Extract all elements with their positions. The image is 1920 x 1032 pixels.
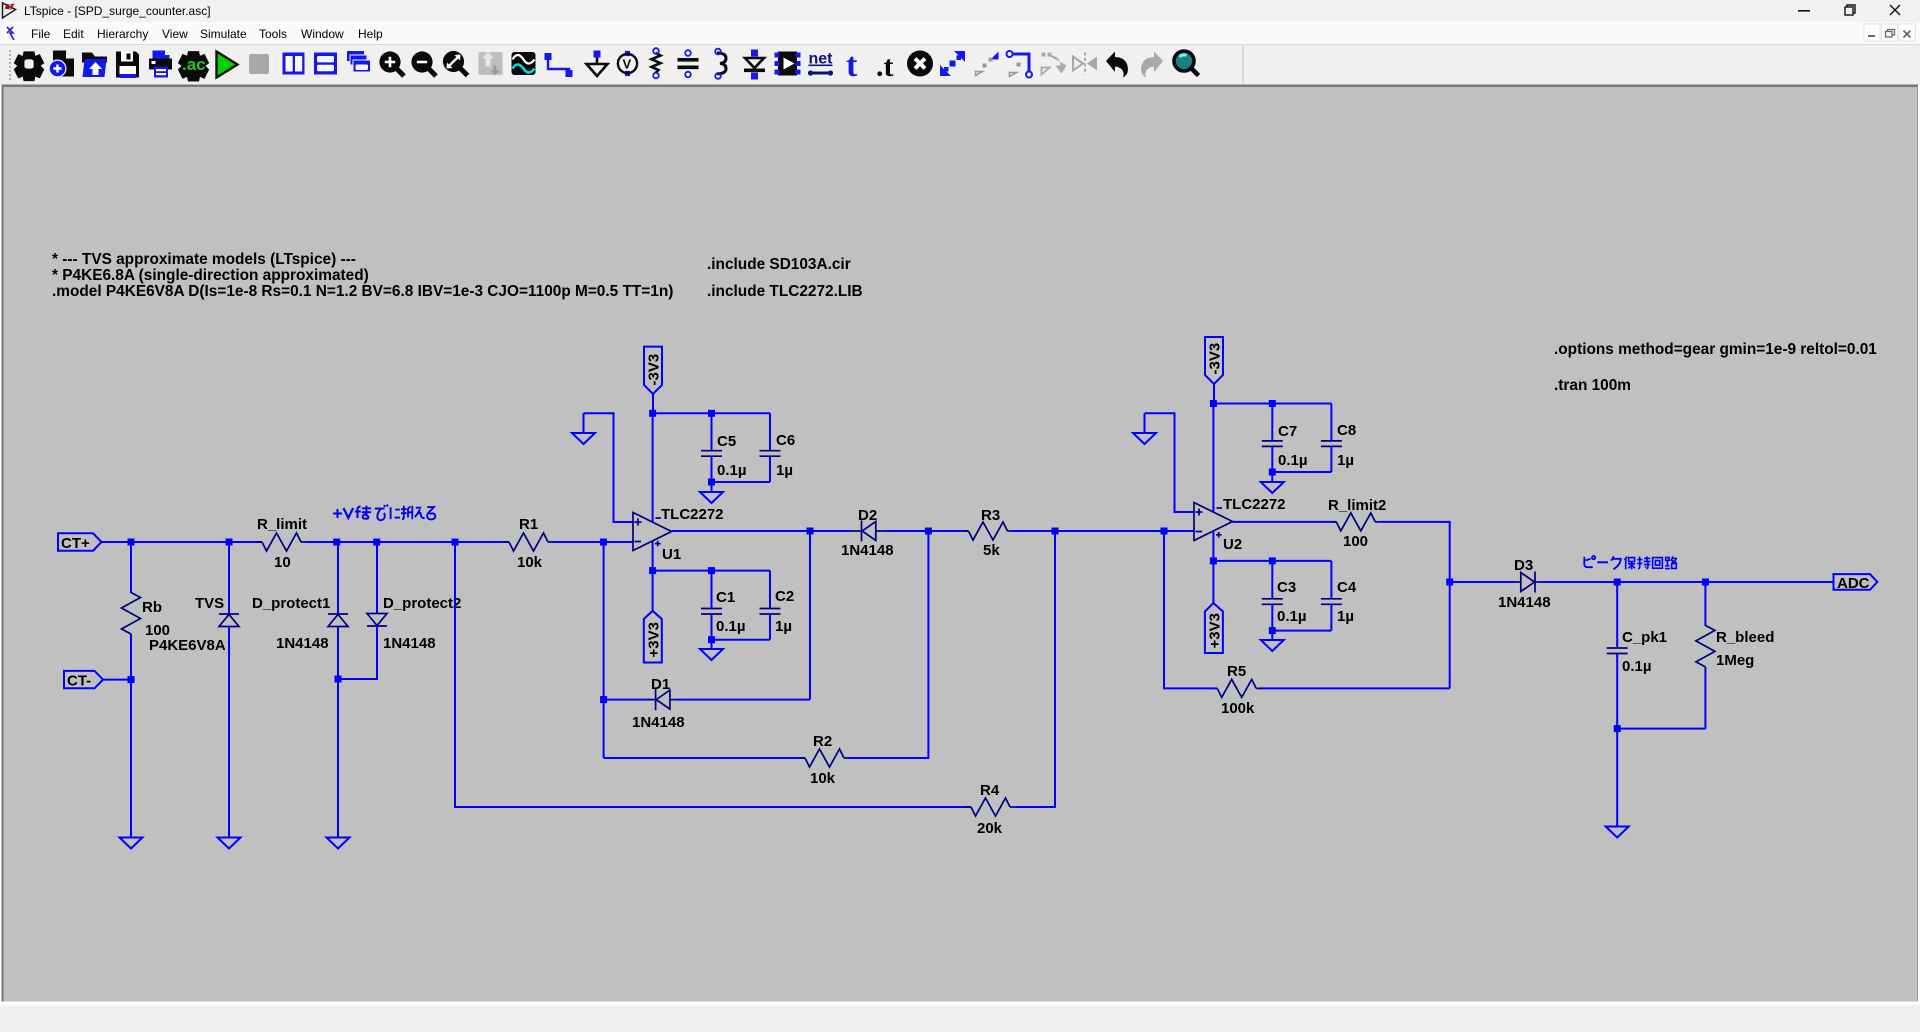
capacitor C3	[1262, 561, 1307, 631]
icon: undo	[1106, 52, 1128, 78]
wire C_pk1 R_bleed bottom	[1617, 728, 1705, 730]
icon: delete	[907, 51, 933, 77]
svg-text:5k: 5k	[983, 542, 1000, 559]
icon: capacitor mode	[678, 50, 699, 77]
svg-text:0.1µ: 0.1µ	[716, 618, 746, 635]
wire ground stub U1 left	[583, 413, 585, 433]
icon: halt	[249, 54, 269, 74]
svg-text:C4: C4	[1337, 579, 1357, 596]
node junction C5 bottom	[708, 479, 715, 486]
svg-text:1Meg: 1Meg	[1716, 652, 1754, 669]
svg-text:net: net	[809, 51, 834, 68]
svg-text:1µ: 1µ	[776, 462, 793, 479]
icon: tile horizontal	[314, 53, 337, 75]
capacitor C7	[1262, 404, 1308, 473]
node junction CT-	[128, 676, 135, 683]
ground peak hold	[1606, 827, 1629, 838]
icon: autorange (pressed)	[479, 52, 503, 76]
maximize glyph	[1845, 5, 1855, 15]
svg-text:C6: C6	[776, 432, 795, 449]
icon: control panel gear	[14, 51, 45, 81]
bottom separator white	[0, 1002, 1920, 1006]
wire U1 V- rail	[653, 412, 770, 414]
resistor R_bleed	[1696, 582, 1774, 729]
svg-text:LTspice - [SPD_surge_counter.a: LTspice - [SPD_surge_counter.asc]	[24, 4, 211, 18]
ground C5	[700, 492, 723, 503]
icon: zoom full extents	[443, 51, 468, 76]
node junction R4 tap	[1052, 528, 1059, 535]
svg-text:.options method=gear gmin=1e-9: .options method=gear gmin=1e-9 reltol=0.…	[1554, 341, 1877, 358]
icon: diode mode	[744, 50, 765, 80]
icon: print	[149, 51, 172, 78]
node junction C3 bottom	[1269, 627, 1276, 634]
wire D3 to ADC	[1541, 581, 1834, 583]
menu bar	[0, 22, 1920, 44]
node junction U2 V+	[1210, 557, 1217, 564]
icon: move	[940, 51, 965, 76]
svg-text:Simulate: Simulate	[200, 27, 247, 41]
svg-text:10k: 10k	[810, 770, 836, 787]
diode D1	[648, 689, 678, 710]
svg-text:U1: U1	[662, 546, 681, 563]
svg-text:R1: R1	[519, 516, 538, 533]
flag -3V3 U1	[644, 347, 663, 394]
wire R_limit2 right and down	[1380, 522, 1449, 689]
icon: zoom in	[379, 51, 404, 76]
icon: find	[1174, 51, 1199, 76]
svg-text:TLC2272: TLC2272	[1223, 496, 1286, 513]
svg-text:R4: R4	[980, 782, 1000, 799]
svg-text:CT+: CT+	[61, 535, 90, 552]
svg-text:C1: C1	[716, 589, 735, 606]
wire C3 C4 bottom rail	[1272, 630, 1331, 632]
svg-text:Window: Window	[301, 27, 344, 41]
svg-text:C8: C8	[1337, 422, 1356, 439]
wire feedback node down	[455, 542, 971, 807]
svg-text:1N4148: 1N4148	[632, 714, 685, 731]
node junction -3V3 U2	[1210, 400, 1217, 407]
icon: run	[217, 52, 238, 78]
wire U1 noninv input L to ground	[584, 413, 634, 522]
node junction D_protect2 tap	[373, 539, 380, 546]
svg-text:P4KE6V8A: P4KE6V8A	[149, 637, 226, 654]
wire Rb top	[130, 542, 132, 593]
wire ground stub U2 left	[1144, 413, 1146, 433]
svg-text:+3V3: +3V3	[646, 622, 663, 657]
MDI child buttons	[1864, 24, 1916, 41]
svg-text:+3V3: +3V3	[1206, 613, 1223, 648]
title bar	[0, 0, 1920, 22]
node junction C1 top	[708, 567, 715, 574]
svg-text:ADC: ADC	[1837, 575, 1870, 592]
svg-text:100k: 100k	[1221, 700, 1255, 717]
wire U2 V- rail	[1213, 403, 1331, 405]
capacitor C1	[701, 571, 746, 640]
wire R2 left	[604, 757, 805, 759]
node junction C3 top	[1269, 557, 1276, 564]
toolbar separator right	[1242, 46, 1244, 84]
wire U1 bottom power pin	[652, 541, 654, 611]
wire TVS bottom to ground	[228, 627, 230, 839]
resistor R4	[971, 798, 1010, 816]
svg-text:Help: Help	[358, 27, 383, 41]
icon: cascade	[347, 51, 371, 72]
icon: waveform	[512, 52, 536, 75]
svg-text:D_protect1: D_protect1	[252, 595, 330, 612]
icon: mirror (disabled)	[1073, 53, 1097, 75]
wire ground stub C1	[711, 640, 713, 649]
resistor R3	[969, 522, 1008, 540]
wire to ground peak hold	[1616, 729, 1618, 827]
node junction -3V3 U1	[649, 410, 656, 417]
capacitor C8	[1321, 404, 1356, 473]
ground U1 noninv	[572, 433, 595, 444]
resistor Rb	[122, 593, 141, 635]
wire U2 bottom power pin	[1212, 531, 1214, 603]
ground D_protect1	[327, 838, 350, 849]
wire D1 right lead	[677, 699, 811, 701]
wire U2 noninv input L to ground	[1145, 413, 1195, 512]
comment +Vf made ni osaeru	[333, 505, 435, 521]
node junction U1 V+	[649, 567, 656, 574]
node junction R_bleed tap	[1702, 579, 1709, 586]
node junction C_pk1 bottom	[1614, 725, 1621, 732]
svg-text:10k: 10k	[517, 554, 543, 571]
toolbar	[0, 44, 1920, 85]
wire D_protect2 bottom	[338, 626, 377, 679]
icon: drag	[976, 52, 999, 76]
svg-text:View: View	[162, 27, 188, 41]
icon: label net mode	[618, 51, 637, 77]
wire R5 left up to inv node	[1164, 531, 1217, 688]
svg-text:C2: C2	[775, 588, 794, 605]
icon: label net	[808, 51, 833, 76]
svg-text:-3V3: -3V3	[1207, 343, 1224, 375]
svg-text:C_pk1: C_pk1	[1622, 629, 1667, 646]
icon: zoom out	[411, 51, 436, 76]
diode TVS	[219, 614, 239, 627]
diode D_protect1	[328, 614, 348, 627]
svg-text:t: t	[846, 47, 858, 84]
comment peak hold circuit	[1584, 556, 1676, 569]
ground Rb	[120, 838, 143, 849]
svg-text:Rb: Rb	[142, 599, 162, 616]
minimize glyph	[1798, 10, 1810, 12]
svg-text:.model P4KE6V8A D(Is=1e-8 Rs=0: .model P4KE6V8A D(Is=1e-8 Rs=0.1 N=1.2 B…	[52, 283, 673, 300]
status bar	[0, 1005, 1920, 1032]
svg-text:20k: 20k	[977, 820, 1003, 837]
resistor R1	[509, 533, 548, 551]
wire C5 C6 bottom rail	[712, 481, 771, 483]
capacitor C2	[760, 571, 795, 640]
wire C7 C8 bottom rail	[1272, 471, 1331, 473]
node junction TVS tap	[226, 539, 233, 546]
svg-text:Tools: Tools	[259, 27, 287, 41]
diode D2	[850, 521, 886, 542]
wire U1 top power pin	[652, 413, 654, 522]
icon: drag wire	[1007, 51, 1033, 78]
capacitor C_pk1	[1607, 582, 1667, 729]
node junction D3 tap	[1446, 579, 1453, 586]
svg-text:R5: R5	[1227, 663, 1246, 680]
wire R4 to main row	[1015, 531, 1055, 807]
icon: wire mode	[545, 53, 573, 77]
icon: resistor mode	[652, 48, 661, 78]
wire D_protect1 bottom to ground	[337, 627, 339, 839]
svg-text:Hierarchy: Hierarchy	[97, 27, 148, 41]
svg-text:D1: D1	[651, 676, 670, 693]
wire ground stub C5	[711, 482, 713, 492]
svg-text:D3: D3	[1514, 557, 1533, 574]
LTspice app icon	[3, 3, 16, 18]
icon: open	[82, 53, 107, 78]
icon: edit simulation cmd (.ac gear)	[178, 51, 209, 81]
capacitor C4	[1321, 561, 1357, 631]
resistor R_limit2	[1336, 513, 1375, 531]
node junction C1 bottom	[708, 636, 715, 643]
wire ground stub C3	[1271, 631, 1273, 640]
svg-text:D2: D2	[858, 507, 877, 524]
ground C1	[700, 649, 723, 660]
flag ADC	[1834, 574, 1878, 592]
node junction C7 bottom	[1269, 469, 1276, 476]
svg-text:Edit: Edit	[63, 27, 84, 41]
svg-text:1N4148: 1N4148	[841, 542, 894, 559]
svg-text:100: 100	[1343, 533, 1368, 550]
wire R_limit to R1	[306, 541, 509, 543]
svg-text:File: File	[31, 27, 51, 41]
svg-text:-3V3: -3V3	[646, 354, 663, 386]
wire R1 to U1 inverting input	[553, 541, 633, 543]
svg-text:0.1µ: 0.1µ	[1277, 608, 1307, 625]
svg-text:R_limit: R_limit	[257, 516, 307, 533]
diode D3	[1513, 572, 1543, 593]
icon: component mode	[775, 52, 801, 76]
wire D_protect1 top	[337, 542, 339, 614]
icon: new schematic	[49, 51, 74, 77]
svg-text:TVS: TVS	[195, 595, 224, 612]
ground C3	[1261, 640, 1284, 651]
svg-text:R_limit2: R_limit2	[1328, 497, 1386, 514]
wire main input row	[131, 541, 262, 543]
op-amp U1	[633, 506, 724, 563]
svg-text:* P4KE6.8A (single-direction a: * P4KE6.8A (single-direction approximate…	[52, 267, 369, 284]
menu hierarchy icon	[7, 27, 14, 40]
wire D3 row left	[1450, 581, 1514, 583]
icon: inductor mode	[715, 49, 726, 79]
svg-text:R3: R3	[981, 507, 1000, 524]
wire -3V3 to rail U1	[652, 394, 654, 413]
diode D_protect2	[367, 614, 387, 627]
wire Rb bottom to ground	[130, 634, 132, 838]
svg-text:0.1µ: 0.1µ	[1278, 452, 1308, 469]
wire R5 right lead	[1260, 687, 1450, 689]
wire output down to D1 row	[809, 531, 811, 700]
svg-text:1N4148: 1N4148	[383, 635, 436, 652]
wire R2 right up to output row	[849, 531, 928, 758]
node junction U1 output	[807, 528, 814, 535]
svg-text:C3: C3	[1277, 579, 1296, 596]
ground U2 noninv	[1133, 433, 1156, 444]
flag +3V3 U2	[1205, 603, 1223, 653]
wire TVS top	[228, 542, 230, 614]
node junction D_protect loop	[335, 676, 342, 683]
svg-text:C5: C5	[717, 433, 736, 450]
svg-text:R_bleed: R_bleed	[1716, 629, 1774, 646]
svg-text:.t: .t	[876, 50, 894, 83]
op-amp U2	[1194, 496, 1286, 553]
svg-text:.include SD103A.cir: .include SD103A.cir	[707, 256, 851, 273]
resistor R_limit	[262, 533, 301, 551]
close glyph	[1890, 5, 1900, 15]
icon: rotate (disabled)	[1042, 53, 1067, 75]
resistor R5	[1217, 679, 1256, 697]
node junction R5 tap	[1161, 528, 1168, 535]
icon: tile vertical	[283, 53, 305, 75]
svg-text:V: V	[623, 57, 632, 72]
wire D_protect2 top	[376, 542, 378, 614]
node junction C_pk1 tap	[1614, 579, 1621, 586]
wire U2 top power pin	[1212, 404, 1214, 513]
wire U1 output	[672, 530, 851, 532]
svg-text:0.1µ: 0.1µ	[1622, 658, 1652, 675]
svg-text:CT-: CT-	[67, 673, 91, 690]
toolbar gripper	[9, 50, 11, 80]
svg-text:U2: U2	[1223, 536, 1242, 553]
wire U1 V+ rail	[653, 570, 770, 572]
node junction D_protect1 tap	[333, 539, 340, 546]
wire C1 C2 bottom rail	[712, 639, 771, 641]
svg-text:1µ: 1µ	[1337, 608, 1354, 625]
node junction D1 left	[600, 696, 607, 703]
node junction C7 top	[1269, 400, 1276, 407]
wire CT- to Rb wire	[103, 679, 131, 681]
svg-text:D_protect2: D_protect2	[383, 595, 461, 612]
wire U2 V+ rail	[1213, 560, 1331, 562]
icon: ground mode	[587, 51, 608, 77]
svg-text:C7: C7	[1278, 423, 1297, 440]
flag CT-	[64, 671, 103, 690]
wire CT+ to node	[102, 541, 132, 543]
svg-text:1N4148: 1N4148	[1498, 594, 1551, 611]
wire inv node down to D1	[603, 542, 605, 758]
wire -3V3 to rail U2	[1213, 384, 1215, 404]
svg-text:TLC2272: TLC2272	[661, 506, 724, 523]
node junction R2/main	[925, 528, 932, 535]
resistor R2	[805, 749, 844, 767]
svg-text:1N4148: 1N4148	[276, 635, 329, 652]
svg-text:1µ: 1µ	[1337, 452, 1354, 469]
svg-text:* --- TVS approximate models (: * --- TVS approximate models (LTspice) -…	[52, 251, 356, 268]
flag -3V3 U2	[1205, 337, 1224, 384]
svg-text:.tran 100m: .tran 100m	[1554, 377, 1631, 394]
wire D2 to R3	[886, 530, 969, 532]
wire U2 output	[1233, 521, 1337, 523]
flag CT+	[58, 533, 102, 552]
svg-text:1µ: 1µ	[775, 618, 792, 635]
icon: redo	[1141, 52, 1163, 78]
node junction U1 inv input	[600, 539, 607, 546]
capacitor C5	[701, 413, 747, 482]
svg-text:0.1µ: 0.1µ	[717, 462, 747, 479]
svg-text:.include TLC2272.LIB: .include TLC2272.LIB	[707, 283, 863, 300]
wire D1 left lead	[604, 699, 650, 701]
wire R3 to U2	[1013, 530, 1195, 532]
icon: save	[116, 52, 139, 79]
flag +3V3 U1	[644, 611, 663, 663]
svg-text:R2: R2	[813, 733, 832, 750]
ground C7	[1261, 482, 1284, 493]
node junction C5 top	[708, 410, 715, 417]
svg-text:.ac: .ac	[182, 55, 206, 74]
node junction feedback tap	[452, 539, 459, 546]
ground TVS	[218, 838, 241, 849]
svg-text:10: 10	[274, 554, 291, 571]
wire ground stub C7	[1271, 472, 1273, 482]
node junction CT+/Rb	[128, 539, 135, 546]
capacitor C6	[760, 413, 796, 482]
